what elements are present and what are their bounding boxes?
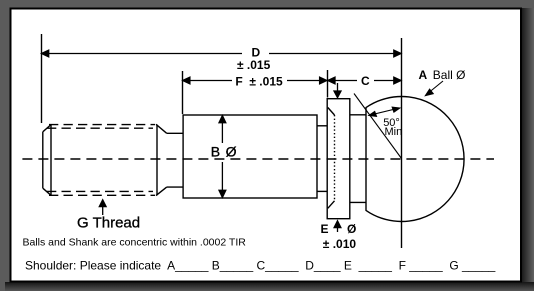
- svg-text:± .010: ± .010: [323, 237, 357, 251]
- dimension C line: [328, 77, 401, 84]
- cone transition bottom thread to neck: [156, 187, 167, 196]
- flange E: [327, 99, 350, 219]
- svg-text:Shoulder: Please indicate A__: Shoulder: Please indicate A_____ B_____ …: [25, 259, 496, 273]
- svg-text:Balls and Shank are concentric: Balls and Shank are concentric within .0…: [23, 236, 247, 248]
- thread major diameter top (dashed): [49, 124, 155, 126]
- svg-text:B: B: [211, 144, 220, 160]
- neck between shank and flange: [317, 126, 327, 192]
- svg-text:G Thread: G Thread: [77, 214, 140, 231]
- thread minor diameter bottom (dashed): [47, 190, 153, 192]
- flange chamfer top: [328, 108, 335, 116]
- thread chamfer top-left: [43, 125, 51, 132]
- dimension F line: [183, 77, 327, 84]
- ball centerline vertical: [401, 38, 403, 248]
- svg-text:A: A: [419, 68, 428, 82]
- C/F shared extension line: [327, 70, 329, 98]
- thread minor diameter top (dashed): [47, 127, 153, 129]
- svg-text:C: C: [361, 74, 370, 88]
- shank cylinder B: [183, 115, 317, 198]
- svg-text:F ± .015: F ± .015: [235, 75, 283, 89]
- svg-text:Min: Min: [385, 126, 403, 138]
- E diameter leader arrow (up): [334, 221, 341, 232]
- D extension line: [41, 34, 43, 123]
- svg-text:± .015: ± .015: [237, 58, 271, 72]
- thread major diameter bottom (dashed): [49, 194, 155, 196]
- flange hidden bore (dotted): [334, 115, 336, 201]
- G thread leader arrow (up): [99, 200, 106, 215]
- thread G: left end face: [43, 124, 167, 195]
- 50 degree arc double arrow: [369, 107, 400, 116]
- B diameter dimension line: [219, 116, 226, 198]
- F extension line: [182, 71, 184, 114]
- dimension D line: [42, 50, 402, 57]
- svg-text:Ø: Ø: [226, 144, 237, 160]
- flange chamfer bottom: [328, 201, 335, 209]
- ball A (truncated circle): [366, 97, 464, 222]
- svg-text:Ø: Ø: [347, 222, 356, 236]
- bottom shadow: [5, 282, 534, 291]
- thread chamfer bottom-left: [43, 188, 51, 195]
- centerline: [22, 158, 494, 160]
- svg-text:E: E: [321, 222, 329, 236]
- A ball leader arrow: [425, 81, 443, 96]
- svg-text:Ball Ø: Ball Ø: [433, 68, 466, 82]
- neck between flange and ball: [350, 115, 366, 203]
- cone transition top thread to neck: [156, 124, 167, 133]
- thread right end face: [156, 125, 158, 196]
- shoulder face arrow (down): [334, 83, 341, 98]
- 50 degree reference line: [354, 94, 402, 159]
- thread chamfer edge line: [50, 125, 52, 196]
- right shadow: [522, 8, 534, 291]
- neck between thread and shank: [167, 133, 183, 187]
